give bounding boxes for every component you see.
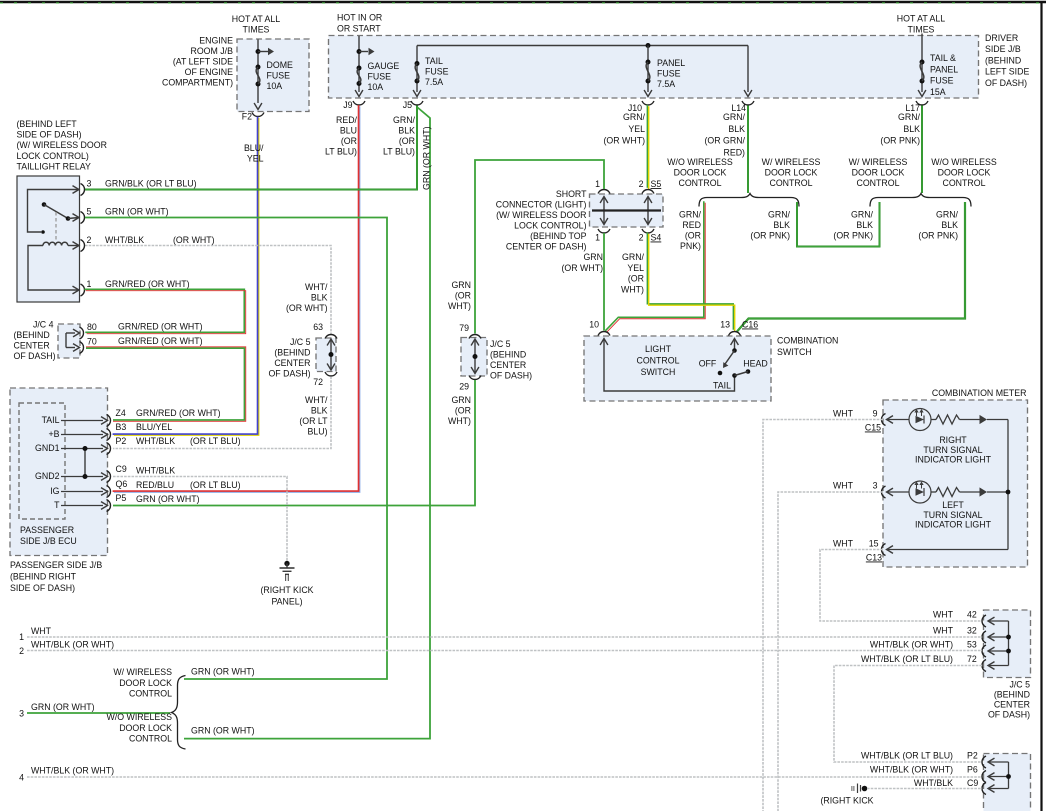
svg-text:(BEHIND: (BEHIND	[14, 330, 50, 340]
fuse PANEL FUSE 7.5A	[646, 43, 651, 48]
wire GRN/RED J/C4 70 to Z4	[86, 347, 246, 421]
svg-text:63: 63	[313, 322, 323, 332]
svg-text:29: 29	[459, 382, 469, 392]
svg-text:(OR: (OR	[685, 231, 701, 241]
svg-text:BLK: BLK	[728, 124, 745, 134]
svg-text:CONNECTOR (LIGHT): CONNECTOR (LIGHT)	[496, 200, 587, 210]
svg-text:(RIGHT KICK: (RIGHT KICK	[260, 585, 313, 595]
svg-text:BLK: BLK	[311, 406, 328, 416]
light control switch internals	[604, 340, 735, 392]
svg-text:HOT AT ALL: HOT AT ALL	[232, 14, 281, 24]
svg-text:S4: S4	[651, 233, 662, 243]
svg-text:TAIL &: TAIL &	[930, 53, 956, 63]
svg-text:RED/BLU: RED/BLU	[136, 480, 174, 490]
wire 4 WHT/BLK	[27, 776, 982, 778]
junction connector J/C5 63/72 internals	[330, 340, 332, 369]
svg-text:SWITCH: SWITCH	[777, 347, 812, 357]
svg-text:FUSE: FUSE	[930, 76, 954, 86]
relay pin arrows	[73, 186, 80, 194]
svg-text:4: 4	[19, 773, 24, 783]
svg-text:LEFT SIDE: LEFT SIDE	[985, 67, 1029, 77]
wire WHT/BLK 72 to P2 (bottom)	[834, 666, 982, 763]
svg-text:GRN/: GRN/	[723, 112, 746, 122]
svg-text:TIMES: TIMES	[908, 25, 935, 35]
svg-text:TURN SIGNAL: TURN SIGNAL	[923, 510, 982, 520]
svg-text:WHT: WHT	[833, 481, 854, 491]
svg-text:CONTROL: CONTROL	[678, 178, 721, 188]
svg-text:OF DASH): OF DASH)	[988, 710, 1030, 720]
svg-text:WHT/BLK (OR LT BLU): WHT/BLK (OR LT BLU)	[861, 654, 953, 664]
svg-text:DOME: DOME	[267, 60, 294, 70]
meter pin 15 / C13	[887, 546, 894, 554]
wire GRN/YEL S4 pin2 to LCS pin 13	[647, 232, 733, 329]
svg-text:J/C 5: J/C 5	[490, 339, 511, 349]
svg-text:BLU/YEL: BLU/YEL	[136, 422, 172, 432]
svg-text:WHT: WHT	[833, 409, 854, 419]
svg-text:GRN/: GRN/	[898, 112, 921, 122]
svg-text:BLU/: BLU/	[244, 143, 264, 153]
page right border	[1040, 2, 1042, 811]
svg-text:BLU): BLU)	[307, 427, 327, 437]
svg-text:P5: P5	[116, 493, 127, 503]
svg-text:GRN (OR WHT): GRN (OR WHT)	[191, 667, 255, 677]
svg-text:C16: C16	[742, 320, 758, 330]
short connector box	[590, 194, 664, 227]
svg-text:13: 13	[720, 320, 730, 330]
svg-text:53: 53	[967, 640, 977, 650]
svg-text:CONTROL: CONTROL	[129, 734, 172, 744]
svg-text:J/C 5: J/C 5	[290, 337, 311, 347]
svg-text:42: 42	[967, 610, 977, 620]
meter internal bus	[1007, 420, 1009, 550]
svg-text:WHT/: WHT/	[305, 395, 328, 405]
svg-text:LOCK CONTROL): LOCK CONTROL)	[17, 151, 89, 161]
wire GRN 29 to P5	[113, 380, 475, 506]
svg-text:(OR WHT): (OR WHT)	[603, 136, 645, 146]
bottom right connector box (P2/P6/C9)	[984, 754, 1031, 811]
svg-text:CENTER OF DASH): CENTER OF DASH)	[506, 242, 587, 252]
svg-text:TAIL: TAIL	[42, 415, 60, 425]
svg-text:GRN/: GRN/	[768, 210, 791, 220]
svg-text:COMPARTMENT): COMPARTMENT)	[162, 78, 233, 88]
svg-text:PNK): PNK)	[680, 241, 701, 251]
svg-text:GRN/: GRN/	[622, 252, 645, 262]
svg-text:J/C 4: J/C 4	[33, 320, 54, 330]
svg-text:BLK: BLK	[773, 220, 790, 230]
svg-text:(BEHIND RIGHT: (BEHIND RIGHT	[10, 572, 77, 582]
ground (right kick panel)	[284, 561, 289, 566]
svg-text:DOOR LOCK: DOOR LOCK	[852, 168, 905, 178]
svg-text:GRN/RED (OR WHT): GRN/RED (OR WHT)	[136, 408, 221, 418]
svg-text:TURN SIGNAL: TURN SIGNAL	[923, 445, 982, 455]
wire WHT meter pin 15 to J/C 42	[820, 550, 982, 622]
bottom right connector internals	[1008, 762, 1010, 789]
svg-text:CENTER: CENTER	[490, 360, 526, 370]
svg-text:+B: +B	[48, 429, 59, 439]
svg-text:WHT/BLK (OR WHT): WHT/BLK (OR WHT)	[31, 766, 114, 776]
connector L17	[916, 101, 928, 105]
svg-text:RED): RED)	[723, 147, 745, 157]
svg-text:W/O WIRELESS: W/O WIRELESS	[107, 712, 173, 722]
brace wire 3 split	[172, 676, 186, 750]
relay internal switch	[28, 190, 80, 233]
svg-text:INDICATOR LIGHT: INDICATOR LIGHT	[915, 455, 992, 465]
svg-text:(OR: (OR	[341, 136, 357, 146]
svg-text:LT BLU): LT BLU)	[325, 147, 357, 157]
svg-text:SWITCH: SWITCH	[641, 367, 676, 377]
indicator light LEFT turn signal	[887, 488, 894, 496]
svg-text:(W/ WIRELESS DOOR: (W/ WIRELESS DOOR	[496, 210, 586, 220]
svg-text:DRIVER: DRIVER	[985, 33, 1018, 43]
brace L14 split	[699, 194, 799, 207]
svg-text:7.5A: 7.5A	[657, 79, 675, 89]
svg-text:80: 80	[87, 322, 97, 332]
svg-text:GND2: GND2	[35, 471, 60, 481]
svg-text:TIMES: TIMES	[243, 25, 270, 35]
svg-text:W/O WIRELESS: W/O WIRELESS	[667, 157, 733, 167]
svg-text:(W/ WIRELESS DOOR: (W/ WIRELESS DOOR	[17, 140, 107, 150]
svg-text:(OR LT: (OR LT	[299, 416, 328, 426]
svg-text:GRN/: GRN/	[679, 210, 702, 220]
svg-text:GRN (OR WHT): GRN (OR WHT)	[31, 702, 95, 712]
svg-text:SIDE J/B: SIDE J/B	[985, 44, 1021, 54]
svg-text:SIDE OF DASH): SIDE OF DASH)	[17, 130, 82, 140]
svg-text:BLK: BLK	[941, 220, 958, 230]
svg-text:GRN: GRN	[583, 252, 603, 262]
svg-text:C9: C9	[116, 464, 127, 474]
junction connector J/C5 79/29 internals	[474, 340, 476, 373]
svg-text:GAUGE: GAUGE	[368, 61, 400, 71]
svg-text:ENGINE: ENGINE	[199, 36, 233, 46]
svg-text:32: 32	[967, 626, 977, 636]
svg-text:GRN (OR WHT): GRN (OR WHT)	[191, 726, 255, 736]
svg-text:15A: 15A	[930, 87, 946, 97]
svg-text:YEL: YEL	[627, 263, 644, 273]
svg-text:WHT: WHT	[933, 626, 954, 636]
bus wire inside driver side J/B	[417, 45, 748, 47]
svg-text:GRN (OR WHT): GRN (OR WHT)	[136, 494, 200, 504]
wire GRN/YEL J10 to S5 pin 2	[646, 105, 648, 188]
svg-text:TAIL: TAIL	[425, 56, 443, 66]
svg-text:W/O WIRELESS: W/O WIRELESS	[931, 157, 997, 167]
svg-text:BLK: BLK	[903, 124, 920, 134]
svg-text:IG: IG	[50, 486, 59, 496]
svg-text:WHT/BLK: WHT/BLK	[136, 436, 175, 446]
svg-text:ROOM J/B: ROOM J/B	[190, 46, 233, 56]
svg-text:(OR PNK): (OR PNK)	[880, 136, 920, 146]
svg-text:WHT/BLK: WHT/BLK	[914, 778, 953, 788]
svg-text:(OR LT BLU): (OR LT BLU)	[190, 436, 241, 446]
svg-text:2: 2	[87, 235, 92, 245]
svg-text:3: 3	[19, 709, 24, 719]
svg-text:DOOR LOCK: DOOR LOCK	[938, 168, 991, 178]
junction connector J/C5 box (79/29)	[461, 338, 487, 377]
svg-text:GRN: GRN	[451, 395, 471, 405]
svg-text:PANEL): PANEL)	[271, 597, 302, 607]
wire GRN/BLK J5 to relay pin 3	[85, 106, 417, 190]
svg-text:F2: F2	[242, 112, 252, 122]
svg-text:PANEL: PANEL	[930, 64, 958, 74]
svg-text:10A: 10A	[267, 81, 283, 91]
wire WHT/BLK 72 to P2	[113, 377, 331, 449]
svg-text:J9: J9	[343, 100, 352, 110]
svg-text:(AT LEFT SIDE: (AT LEFT SIDE	[173, 57, 233, 67]
svg-text:WHT: WHT	[31, 626, 52, 636]
wire WHT/BLK C9 to ground	[113, 477, 287, 562]
svg-text:TAILLIGHT RELAY: TAILLIGHT RELAY	[17, 161, 91, 171]
svg-text:W/ WIRELESS: W/ WIRELESS	[762, 157, 821, 167]
svg-text:LOCK CONTROL): LOCK CONTROL)	[514, 221, 586, 231]
svg-text:RED/: RED/	[336, 115, 358, 125]
svg-text:GRN (OR WHT): GRN (OR WHT)	[105, 207, 169, 217]
short connector internal links	[603, 198, 605, 223]
svg-text:GRN/RED (OR WHT): GRN/RED (OR WHT)	[118, 336, 203, 346]
svg-text:HEAD: HEAD	[743, 359, 767, 369]
wire RED/BLU J9 to Q6	[113, 105, 359, 491]
svg-text:70: 70	[87, 337, 97, 347]
wire WHT meter pin 3 down	[778, 492, 883, 811]
svg-text:P6: P6	[967, 765, 978, 775]
wire BLU/YEL F2 to +B	[113, 117, 258, 435]
svg-text:FUSE: FUSE	[267, 71, 291, 81]
svg-text:(RIGHT KICK: (RIGHT KICK	[820, 796, 873, 806]
svg-text:P2: P2	[116, 436, 127, 446]
wire GRN relay pin5 to W/ wireless branch	[85, 218, 387, 680]
svg-text:T: T	[54, 500, 60, 510]
svg-text:C13: C13	[866, 553, 882, 563]
connector J5	[411, 101, 423, 105]
svg-text:PANEL: PANEL	[657, 58, 685, 68]
svg-text:(OR WHT): (OR WHT)	[286, 303, 328, 313]
svg-text:P2: P2	[967, 751, 978, 761]
wire 2 WHT/BLK	[27, 650, 982, 652]
svg-text:1: 1	[595, 233, 600, 243]
connector S4	[598, 229, 610, 233]
svg-text:GRN/RED (OR WHT): GRN/RED (OR WHT)	[105, 279, 190, 289]
svg-text:II: II	[851, 784, 855, 793]
svg-text:2: 2	[639, 233, 644, 243]
svg-text:GRN/BLK (OR LT BLU): GRN/BLK (OR LT BLU)	[105, 179, 197, 189]
svg-text:(BEHIND: (BEHIND	[490, 350, 526, 360]
svg-text:WHT/BLK (OR LT BLU): WHT/BLK (OR LT BLU)	[861, 751, 953, 761]
svg-text:CENTER: CENTER	[274, 358, 310, 368]
svg-text:HOT IN OR: HOT IN OR	[337, 13, 382, 23]
svg-text:(BEHIND: (BEHIND	[274, 348, 310, 358]
svg-text:GND1: GND1	[35, 443, 60, 453]
svg-text:WHT): WHT)	[448, 301, 471, 311]
wire GRN S4 pin1 to LCS pin 10	[603, 233, 605, 331]
svg-text:II: II	[285, 573, 290, 583]
indicator light RIGHT turn signal	[887, 416, 894, 424]
svg-text:(OR LT BLU): (OR LT BLU)	[190, 480, 241, 490]
svg-text:79: 79	[459, 323, 469, 333]
svg-text:9: 9	[873, 409, 878, 419]
svg-text:72: 72	[967, 654, 977, 664]
wire GRN/RED relay pin1 to J/C4 80	[84, 289, 244, 332]
svg-text:CONTROL: CONTROL	[942, 178, 985, 188]
svg-text:(BEHIND LEFT: (BEHIND LEFT	[17, 119, 78, 129]
svg-text:WHT/BLK: WHT/BLK	[136, 466, 175, 476]
fuse TAIL & PANEL FUSE 15A	[921, 34, 923, 93]
junction connector J/C4	[58, 324, 80, 358]
svg-text:15: 15	[869, 539, 879, 549]
wire GRN horizontal to J/C5 79	[475, 160, 604, 334]
svg-text:10: 10	[589, 320, 599, 330]
node L14 drop inside J/B	[747, 46, 749, 93]
relay pin connectors	[81, 184, 85, 196]
wire GRN/BLK drop to LCS pin 13	[737, 202, 965, 332]
junction connector J/C5 box (63/72)	[316, 338, 336, 372]
svg-text:Z4: Z4	[116, 408, 126, 418]
svg-text:LEFT: LEFT	[942, 500, 964, 510]
svg-text:(OR WHT): (OR WHT)	[561, 263, 603, 273]
svg-text:(OR: (OR	[455, 406, 471, 416]
svg-text:LT BLU): LT BLU)	[383, 147, 415, 157]
wire 3 GRN	[27, 712, 170, 714]
svg-text:GRN/: GRN/	[623, 112, 646, 122]
connector S5	[598, 190, 610, 194]
svg-text:(OR WHT): (OR WHT)	[173, 235, 215, 245]
svg-text:CONTROL: CONTROL	[636, 356, 679, 366]
svg-text:GRN/: GRN/	[393, 115, 416, 125]
svg-text:BLK: BLK	[856, 220, 873, 230]
passenger side J/B box	[10, 388, 108, 556]
fuse GAUGE FUSE 10A	[358, 36, 360, 92]
svg-text:1: 1	[19, 632, 24, 642]
svg-text:J5: J5	[403, 100, 412, 110]
svg-text:SHORT: SHORT	[556, 189, 587, 199]
svg-text:HOT AT ALL: HOT AT ALL	[897, 14, 946, 24]
svg-text:5: 5	[87, 207, 92, 217]
svg-text:SIDE OF DASH): SIDE OF DASH)	[10, 583, 75, 593]
light control switch box	[584, 336, 771, 401]
svg-text:CENTER: CENTER	[14, 341, 50, 351]
junction connector J/C5 box (42/32/53/72)	[984, 610, 1031, 678]
svg-text:B3: B3	[116, 422, 127, 432]
driver side J/B box (HOT IN OR OR START)	[329, 36, 979, 99]
svg-text:W/ WIRELESS: W/ WIRELESS	[849, 157, 908, 167]
wire GRN/RED drop to LCS pin 10	[605, 201, 704, 330]
svg-text:GRN/RED (OR WHT): GRN/RED (OR WHT)	[118, 322, 203, 332]
svg-text:WHT/: WHT/	[305, 282, 328, 292]
svg-text:OF DASH): OF DASH)	[268, 369, 310, 379]
svg-text:1: 1	[595, 179, 600, 189]
svg-text:CONTROL: CONTROL	[856, 178, 899, 188]
svg-text:GRN/: GRN/	[851, 210, 874, 220]
svg-text:3: 3	[873, 481, 878, 491]
svg-text:RED: RED	[682, 220, 701, 230]
page top border	[0, 1, 1046, 4]
svg-text:FUSE: FUSE	[368, 72, 392, 82]
relay coil	[43, 242, 68, 245]
svg-text:CENTER: CENTER	[994, 700, 1030, 710]
svg-text:DOOR LOCK: DOOR LOCK	[119, 678, 172, 688]
svg-text:DOOR LOCK: DOOR LOCK	[765, 168, 818, 178]
svg-text:(OR GRN/: (OR GRN/	[704, 136, 745, 146]
connector J9	[353, 101, 365, 105]
svg-text:2: 2	[19, 646, 24, 656]
svg-text:DOOR LOCK: DOOR LOCK	[674, 168, 727, 178]
connector pin 10	[598, 332, 610, 336]
connector J10	[642, 101, 654, 105]
svg-text:OR START: OR START	[337, 24, 381, 34]
svg-text:Q6: Q6	[116, 479, 128, 489]
brace L17 split	[870, 194, 971, 207]
wire GRN J5 branch down to W/O wireless	[184, 107, 430, 739]
svg-text:S5: S5	[651, 179, 662, 189]
svg-text:C9: C9	[967, 778, 978, 788]
svg-text:CONTROL: CONTROL	[769, 178, 812, 188]
svg-text:COMBINATION: COMBINATION	[777, 336, 838, 346]
wire GRN/BLK U link w/wireless	[797, 202, 880, 247]
svg-text:OF ENGINE: OF ENGINE	[185, 67, 234, 77]
svg-text:OF DASH): OF DASH)	[14, 351, 56, 361]
svg-text:(BEHIND TOP: (BEHIND TOP	[530, 231, 587, 241]
svg-text:TAIL: TAIL	[713, 381, 731, 391]
passenger side J/B ECU box	[19, 403, 65, 519]
svg-text:WHT/BLK: WHT/BLK	[105, 235, 144, 245]
connector pin 13 / C16	[729, 332, 741, 336]
svg-text:OFF: OFF	[699, 359, 717, 369]
svg-text:LIGHT: LIGHT	[645, 344, 672, 354]
svg-text:(OR: (OR	[455, 291, 471, 301]
svg-text:WHT: WHT	[933, 610, 954, 620]
svg-text:J/C 5: J/C 5	[1009, 680, 1030, 690]
engine room J/B box	[237, 39, 309, 112]
svg-text:WHT/BLK (OR WHT): WHT/BLK (OR WHT)	[870, 640, 953, 650]
wire GRN/BLK L17 to brace	[921, 106, 923, 194]
svg-text:INDICATOR LIGHT: INDICATOR LIGHT	[915, 520, 992, 530]
svg-text:PASSENGER: PASSENGER	[20, 525, 74, 535]
svg-text:GRN (OR WHT): GRN (OR WHT)	[422, 126, 432, 190]
junction connector right J/C5 internals	[1008, 621, 1010, 666]
svg-text:WHT/BLK (OR WHT): WHT/BLK (OR WHT)	[870, 765, 953, 775]
svg-text:(BEHIND: (BEHIND	[994, 690, 1030, 700]
connector F2	[252, 113, 264, 117]
svg-text:BLU: BLU	[340, 126, 357, 136]
svg-text:1: 1	[87, 279, 92, 289]
svg-text:(OR PNK): (OR PNK)	[750, 231, 790, 241]
svg-text:(OR: (OR	[628, 274, 644, 284]
svg-text:GRN: GRN	[451, 280, 471, 290]
svg-text:WHT: WHT	[833, 539, 854, 549]
svg-text:CONTROL: CONTROL	[129, 689, 172, 699]
combination meter box	[883, 400, 1028, 567]
GND link	[84, 449, 86, 477]
wire WHT/BLK relay pin2 to J/C5 63	[85, 246, 331, 335]
svg-text:SIDE J/B ECU: SIDE J/B ECU	[20, 536, 77, 546]
taillight relay box	[17, 176, 80, 302]
svg-text:FUSE: FUSE	[425, 67, 449, 77]
svg-text:(OR PNK): (OR PNK)	[833, 231, 873, 241]
svg-text:WHT): WHT)	[448, 416, 471, 426]
svg-text:OF DASH): OF DASH)	[985, 78, 1027, 88]
svg-text:W/ WIRELESS: W/ WIRELESS	[113, 667, 172, 677]
wire GRN/BLK L14 to brace	[747, 106, 749, 194]
svg-text:OF DASH): OF DASH)	[490, 371, 532, 381]
svg-text:PASSENGER SIDE J/B: PASSENGER SIDE J/B	[10, 560, 102, 570]
svg-text:(OR PNK): (OR PNK)	[918, 231, 958, 241]
svg-text:WHT/BLK (OR WHT): WHT/BLK (OR WHT)	[31, 640, 114, 650]
svg-text:10A: 10A	[368, 82, 384, 92]
svg-text:C15: C15	[865, 423, 881, 433]
svg-text:BLK: BLK	[398, 126, 415, 136]
svg-text:DOOR LOCK: DOOR LOCK	[119, 723, 172, 733]
svg-text:3: 3	[87, 179, 92, 189]
svg-text:WHT): WHT)	[621, 284, 644, 294]
wire WHT meter pin 9 down	[763, 420, 883, 811]
svg-text:YEL: YEL	[628, 124, 645, 134]
